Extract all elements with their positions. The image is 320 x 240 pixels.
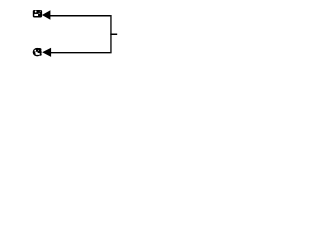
wire W2 (bottom horizontal)	[51, 52, 111, 54]
wire W4 (right stub at node)	[110, 33, 117, 35]
device icon D2 (bottom glyph)	[33, 48, 42, 57]
wire W3 (vertical join)	[110, 15, 112, 53]
arrowhead A2 (bottom, points left into D2)	[42, 48, 51, 57]
device icon D1 (top glyph)	[33, 10, 42, 17]
arrowhead A1 (top, points left into D1)	[42, 10, 51, 20]
wire W1 (top horizontal)	[50, 15, 110, 17]
